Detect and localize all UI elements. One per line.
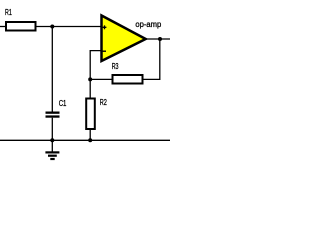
svg-text:op-amp: op-amp bbox=[135, 20, 161, 29]
wire R2 to bus bbox=[89, 130, 91, 141]
wire C1 to ground bus bbox=[51, 118, 53, 141]
resistor R2 bbox=[86, 99, 95, 130]
wire R1 to op-amp non-inverting input bbox=[37, 26, 102, 28]
op-amp minus input marker bbox=[102, 50, 106, 52]
ground bbox=[45, 140, 59, 160]
node junction output bbox=[158, 37, 162, 41]
svg-text:R2: R2 bbox=[100, 98, 107, 107]
wire R3 to output node bbox=[144, 39, 160, 79]
node junction bus-R2 bbox=[88, 138, 92, 142]
capacitor C1 bbox=[46, 112, 60, 114]
node junction top (input node) bbox=[50, 25, 54, 29]
svg-text:R1: R1 bbox=[5, 8, 12, 17]
wire op-amp inverting input bbox=[90, 51, 101, 98]
op-amp plus input marker bbox=[103, 25, 107, 29]
resistor R3 bbox=[113, 75, 143, 84]
wire junction down to C1 bbox=[51, 27, 53, 112]
node junction feedback bbox=[88, 77, 92, 81]
wire ground bus bbox=[0, 139, 170, 141]
op-amp U1 bbox=[102, 16, 146, 62]
resistor R1 bbox=[6, 22, 36, 31]
node junction bus-C1 bbox=[50, 138, 54, 142]
svg-text:C1: C1 bbox=[59, 99, 67, 108]
wire input left to R1 bbox=[0, 26, 6, 28]
wire feedback node to R3 bbox=[90, 78, 112, 80]
svg-text:R3: R3 bbox=[112, 62, 119, 71]
wire op-amp output bbox=[144, 38, 170, 40]
